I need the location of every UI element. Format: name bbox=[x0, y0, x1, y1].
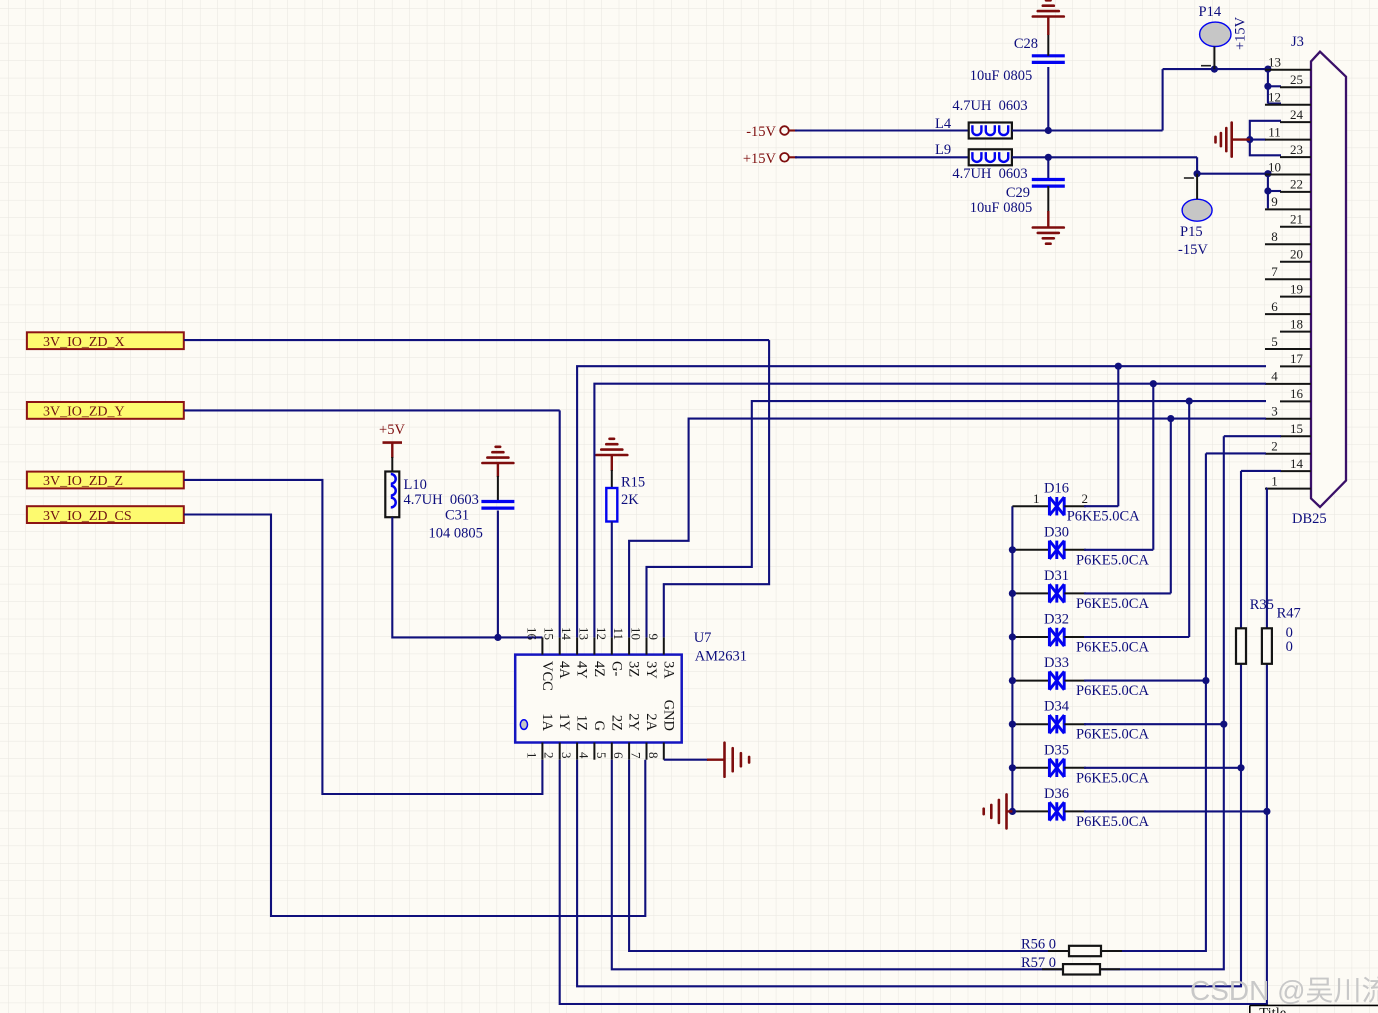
wire -15V to L4 bbox=[795, 129, 969, 131]
svg-text:8: 8 bbox=[1271, 229, 1278, 244]
svg-text:3A: 3A bbox=[660, 661, 676, 679]
U7 pin 6 (2Y) bbox=[611, 713, 642, 759]
capacitor C28 bbox=[1032, 56, 1065, 63]
U7 pin 2 (1Y) bbox=[542, 713, 573, 759]
U7 pin 12 (G-) bbox=[594, 627, 625, 676]
svg-text:R56 0: R56 0 bbox=[1021, 937, 1056, 953]
svg-text:13: 13 bbox=[576, 627, 591, 640]
U7 pin 7 (2A) bbox=[629, 713, 660, 759]
wire C28 to L4 junction bbox=[1047, 67, 1049, 131]
U7 pin 9 (3A) bbox=[646, 634, 677, 680]
U7 pin 10 (3Y) bbox=[629, 627, 660, 679]
J3 pin 24 bbox=[1280, 107, 1311, 122]
svg-text:D35: D35 bbox=[1044, 742, 1069, 758]
junction D16 riser bbox=[1115, 363, 1122, 370]
J3 pin 5 bbox=[1265, 334, 1311, 349]
svg-text:9: 9 bbox=[1271, 194, 1278, 209]
svg-text:3: 3 bbox=[559, 752, 574, 759]
svg-text:4: 4 bbox=[1271, 369, 1278, 384]
svg-text:10uF 0805: 10uF 0805 bbox=[970, 68, 1032, 84]
svg-text:6: 6 bbox=[1271, 299, 1278, 314]
wire riser to D32 bbox=[1188, 401, 1190, 637]
junction bus D33 bbox=[1009, 677, 1016, 684]
svg-text:3V_IO_ZD_CS: 3V_IO_ZD_CS bbox=[43, 509, 132, 524]
svg-text:GND: GND bbox=[660, 700, 676, 731]
title block bbox=[1250, 1005, 1378, 1013]
wire U7 pin11 to J3 pin3 bbox=[629, 419, 1266, 638]
U7 pin 13 (4Z) bbox=[576, 627, 607, 677]
port -15V bbox=[746, 124, 797, 140]
J3 pin 13 bbox=[1265, 55, 1311, 70]
port +15V bbox=[743, 151, 797, 167]
svg-text:CSDN @吴川流: CSDN @吴川流 bbox=[1190, 975, 1378, 1006]
svg-text:14: 14 bbox=[1290, 456, 1304, 471]
wire C29 to ground bbox=[1047, 186, 1049, 212]
junction C31 bbox=[494, 634, 501, 641]
wire L9 to pin10 row bbox=[1197, 157, 1269, 173]
wire R15 to U7 pin12 bbox=[611, 522, 613, 638]
resistor R56 bbox=[1048, 950, 1069, 952]
wire J3 pin1 to R47 bbox=[1266, 488, 1268, 628]
svg-text:6: 6 bbox=[611, 752, 626, 759]
J3 pin 3 bbox=[1265, 404, 1311, 419]
svg-text:11: 11 bbox=[611, 627, 626, 640]
svg-text:P14: P14 bbox=[1199, 4, 1222, 20]
svg-text:P6KE5.0CA: P6KE5.0CA bbox=[1076, 727, 1149, 743]
junction L9/C29 bbox=[1045, 154, 1052, 161]
svg-text:19: 19 bbox=[1290, 281, 1303, 296]
svg-text:+15V: +15V bbox=[1233, 16, 1249, 50]
J3 pin 18 bbox=[1280, 316, 1311, 331]
wire U7 pin10 to J3 pin16 bbox=[647, 401, 1267, 637]
svg-text:3V_IO_ZD_Y: 3V_IO_ZD_Y bbox=[43, 405, 125, 420]
wire U7 pin2 loop to R47/D36/J3 pin1 bbox=[560, 664, 1267, 1004]
svg-text:L9: L9 bbox=[935, 142, 951, 158]
wire net 3V_IO_ZD_Z bbox=[184, 480, 542, 794]
junction D34 loop bbox=[1220, 721, 1227, 728]
svg-text:1: 1 bbox=[1271, 473, 1278, 488]
inductor L10 bbox=[385, 472, 399, 518]
wire J3 pin14 to R35 bbox=[1240, 471, 1242, 628]
svg-text:P6KE5.0CA: P6KE5.0CA bbox=[1076, 640, 1149, 656]
wire to pin12 bbox=[1268, 102, 1281, 104]
junction D35 loop bbox=[1237, 764, 1244, 771]
port 3V_IO_ZD_CS bbox=[27, 506, 184, 524]
junction bus D36 bbox=[1009, 808, 1016, 815]
svg-text:G-: G- bbox=[608, 661, 624, 676]
U7 pin 5 (2Z) bbox=[594, 715, 625, 760]
junction D36 loop bbox=[1263, 808, 1270, 815]
resistor R35 bbox=[1236, 628, 1246, 664]
ground earth above C28 bbox=[1033, 0, 1064, 16]
J3 pin 1 bbox=[1265, 473, 1311, 488]
junction bus D35 bbox=[1009, 764, 1016, 771]
svg-text:P6KE5.0CA: P6KE5.0CA bbox=[1076, 814, 1149, 830]
svg-text:12: 12 bbox=[1268, 90, 1281, 105]
svg-text:R47: R47 bbox=[1277, 606, 1301, 622]
U7 pin 1 (1A) bbox=[524, 713, 555, 759]
svg-text:17: 17 bbox=[1290, 351, 1304, 366]
svg-text:3V_IO_ZD_X: 3V_IO_ZD_X bbox=[43, 335, 125, 350]
connector J3 body bbox=[1311, 52, 1346, 507]
J3 pin 12 bbox=[1265, 90, 1311, 105]
wire to pin22 bbox=[1268, 190, 1281, 192]
junction pin25 bbox=[1264, 83, 1271, 90]
diode D34 P6KE5.0CA bbox=[1012, 699, 1223, 743]
wire +15V to L9 bbox=[795, 156, 969, 158]
wire U7 pin8 to ground bbox=[664, 759, 708, 761]
U7 pin1 indicator dot bbox=[520, 720, 527, 730]
junction bus D34 bbox=[1009, 721, 1016, 728]
svg-text:1A: 1A bbox=[539, 713, 555, 731]
junction pin13 bbox=[1264, 66, 1271, 73]
wire net 3V_IO_ZD_X bbox=[184, 339, 769, 341]
svg-text:3: 3 bbox=[1271, 404, 1278, 419]
diode D30 P6KE5.0CA bbox=[1012, 524, 1153, 568]
J3 pin 7 bbox=[1265, 264, 1311, 279]
svg-text:1: 1 bbox=[1033, 491, 1040, 506]
svg-text:7: 7 bbox=[1271, 264, 1278, 279]
J3 pin 19 bbox=[1280, 281, 1311, 296]
port 3V_IO_ZD_Z bbox=[27, 472, 184, 490]
junction pin22 bbox=[1264, 187, 1271, 194]
svg-text:P6KE5.0CA: P6KE5.0CA bbox=[1076, 770, 1149, 786]
wire to J3 pin2 bbox=[1206, 452, 1266, 454]
U7 pin 11 (3Z) bbox=[611, 627, 642, 677]
wire diode anode bus bbox=[1011, 506, 1013, 811]
junction L4/C28 bbox=[1045, 127, 1052, 134]
J3 pin 23 bbox=[1280, 142, 1311, 157]
resistor R15 bbox=[611, 455, 613, 471]
svg-text:7: 7 bbox=[629, 752, 644, 759]
wire L4 out to riser bbox=[1012, 129, 1163, 131]
svg-text:2Y: 2Y bbox=[626, 713, 642, 731]
resistor R57 bbox=[1042, 968, 1063, 970]
svg-text:0: 0 bbox=[1286, 639, 1293, 655]
J3 pin 20 bbox=[1280, 247, 1311, 262]
capacitor C31 bbox=[497, 463, 499, 477]
wire pin10/pin22/pin9 tie bbox=[1267, 174, 1269, 209]
svg-text:L10: L10 bbox=[404, 477, 427, 493]
svg-text:L4: L4 bbox=[935, 116, 952, 132]
svg-text:AM2631: AM2631 bbox=[695, 649, 747, 665]
junction bus D31 bbox=[1009, 590, 1016, 597]
wire L10 to U7 pin16 bbox=[392, 517, 542, 637]
svg-text:2K: 2K bbox=[621, 492, 639, 508]
svg-text:D32: D32 bbox=[1044, 612, 1069, 628]
svg-text:20: 20 bbox=[1290, 247, 1303, 262]
svg-text:15: 15 bbox=[1290, 421, 1303, 436]
svg-text:4: 4 bbox=[576, 752, 591, 759]
resistor R47 bbox=[1262, 628, 1272, 664]
svg-text:12: 12 bbox=[594, 627, 609, 640]
svg-text:8: 8 bbox=[646, 752, 661, 759]
svg-text:16: 16 bbox=[524, 627, 539, 641]
svg-text:10uF 0805: 10uF 0805 bbox=[970, 200, 1032, 216]
svg-text:5: 5 bbox=[594, 752, 609, 759]
J3 pin 6 bbox=[1265, 299, 1311, 314]
U7 pin 16 (VCC) bbox=[524, 627, 555, 691]
wire U7 pin14 to J3 pin17 bbox=[577, 366, 1266, 637]
wire U7 pin6 loop via R56 to J3 pin2 bbox=[629, 453, 1206, 951]
wire L9 out bbox=[1012, 156, 1197, 158]
svg-text:P15: P15 bbox=[1180, 224, 1203, 240]
svg-text:C31: C31 bbox=[445, 508, 469, 524]
svg-text:D30: D30 bbox=[1044, 524, 1069, 540]
svg-text:4.7UH 0603: 4.7UH 0603 bbox=[404, 492, 479, 508]
svg-text:2: 2 bbox=[1082, 491, 1089, 506]
U7 pin 3 (1Z) bbox=[559, 715, 590, 760]
wire U7 pin3 loop to R35/D35/J3 pin14 bbox=[577, 664, 1241, 986]
ground earth below C29 bbox=[1033, 228, 1064, 244]
svg-text:15: 15 bbox=[542, 627, 557, 640]
inductor L4 bbox=[969, 123, 1012, 139]
U7 pin 8 (GND) bbox=[646, 700, 677, 760]
J3 pin 4 bbox=[1265, 369, 1311, 384]
wire U7 pin9 to net X bbox=[664, 340, 769, 637]
port 3V_IO_ZD_X bbox=[27, 332, 184, 350]
power +5V bbox=[379, 422, 405, 472]
wire U7 pin13 to J3 pin4 bbox=[594, 384, 1266, 638]
svg-text:R57 0: R57 0 bbox=[1021, 955, 1056, 971]
svg-text:9: 9 bbox=[646, 634, 661, 641]
J3 pin 8 bbox=[1265, 229, 1311, 244]
svg-text:DB25: DB25 bbox=[1292, 511, 1327, 527]
junction D33 loop bbox=[1202, 677, 1209, 684]
svg-text:14: 14 bbox=[559, 627, 574, 641]
ground earth above R15 bbox=[596, 439, 627, 455]
svg-text:J3: J3 bbox=[1291, 34, 1304, 50]
J3 pin 11 bbox=[1265, 124, 1311, 139]
ground signal at D36 bbox=[1006, 810, 1012, 812]
svg-text:2Z: 2Z bbox=[608, 715, 624, 731]
connector P14 bbox=[1200, 22, 1231, 69]
diode D31 P6KE5.0CA bbox=[1012, 568, 1170, 612]
svg-text:3Y: 3Y bbox=[643, 661, 659, 679]
junction D31 riser bbox=[1167, 415, 1174, 422]
svg-text:P6KE5.0CA: P6KE5.0CA bbox=[1067, 509, 1140, 525]
svg-text:G: G bbox=[591, 721, 607, 732]
svg-text:4Z: 4Z bbox=[591, 661, 607, 677]
J3 pin 9 bbox=[1265, 194, 1311, 209]
port 3V_IO_ZD_Y bbox=[27, 402, 184, 420]
svg-text:22: 22 bbox=[1290, 177, 1303, 192]
wire L9 junction to C29 bbox=[1047, 157, 1049, 180]
U7 pin 4 (G) bbox=[576, 721, 607, 760]
svg-text:1Y: 1Y bbox=[556, 713, 572, 731]
svg-text:Title: Title bbox=[1259, 1006, 1286, 1013]
svg-text:D33: D33 bbox=[1044, 655, 1069, 671]
svg-text:C28: C28 bbox=[1014, 36, 1038, 52]
diode D16 P6KE5.0CA bbox=[1012, 481, 1140, 525]
svg-text:D31: D31 bbox=[1044, 568, 1069, 584]
wire U7 pin5 loop via R57 to J3 pin15 bbox=[612, 436, 1224, 969]
J3 pin 10 bbox=[1265, 159, 1311, 174]
junction bus D32 bbox=[1009, 633, 1016, 640]
J3 pin 15 bbox=[1280, 421, 1311, 436]
wire +15V rail to J3 pin13 bbox=[1163, 68, 1269, 70]
ground signal at pin11 bbox=[1216, 123, 1232, 157]
connector P15 bbox=[1182, 174, 1212, 222]
diode D36 P6KE5.0CA bbox=[1012, 786, 1267, 830]
svg-text:R15: R15 bbox=[621, 475, 645, 491]
svg-text:13: 13 bbox=[1268, 55, 1281, 70]
wire to J3 pin1 bbox=[1265, 487, 1268, 489]
junction P14 bbox=[1211, 66, 1218, 73]
svg-text:2: 2 bbox=[542, 752, 557, 759]
svg-text:-15V: -15V bbox=[746, 124, 776, 140]
J3 pin 2 bbox=[1265, 439, 1311, 454]
svg-text:4A: 4A bbox=[556, 661, 572, 679]
wire U7 pin15 to net Y bbox=[559, 410, 561, 637]
svg-text:1Z: 1Z bbox=[574, 715, 590, 731]
svg-text:U7: U7 bbox=[694, 630, 712, 646]
wire net 3V_IO_ZD_Y bbox=[184, 409, 560, 411]
svg-text:P6KE5.0CA: P6KE5.0CA bbox=[1076, 683, 1149, 699]
capacitor C29 bbox=[1032, 180, 1065, 187]
svg-text:4.7UH 0603: 4.7UH 0603 bbox=[952, 166, 1027, 182]
junction P15 bbox=[1194, 170, 1201, 177]
svg-text:P6KE5.0CA: P6KE5.0CA bbox=[1076, 552, 1149, 568]
svg-text:VCC: VCC bbox=[539, 661, 555, 691]
wire C31 to pin16 rail bbox=[497, 511, 499, 638]
wire riser to D30 bbox=[1152, 384, 1154, 550]
svg-text:3Z: 3Z bbox=[626, 661, 642, 677]
diode D33 P6KE5.0CA bbox=[1012, 655, 1206, 699]
svg-text:P6KE5.0CA: P6KE5.0CA bbox=[1076, 596, 1149, 612]
svg-text:D34: D34 bbox=[1044, 699, 1070, 715]
wire pin11 to gnd bbox=[1250, 139, 1266, 141]
wire C28 top to ground bbox=[1047, 34, 1049, 56]
wire to J3 pin14 bbox=[1241, 470, 1281, 472]
junction D30 riser bbox=[1150, 380, 1157, 387]
junction pin11 gnd bbox=[1246, 136, 1253, 143]
svg-text:5: 5 bbox=[1271, 334, 1278, 349]
svg-text:+15V: +15V bbox=[743, 151, 777, 167]
wire riser to D31 bbox=[1170, 419, 1172, 594]
svg-text:4Y: 4Y bbox=[574, 661, 590, 679]
diode D35 P6KE5.0CA bbox=[1012, 742, 1241, 786]
J3 pin 21 bbox=[1280, 212, 1311, 227]
svg-text:D16: D16 bbox=[1044, 481, 1069, 497]
svg-text:D36: D36 bbox=[1044, 786, 1069, 802]
svg-text:2A: 2A bbox=[643, 713, 659, 731]
svg-text:10: 10 bbox=[1268, 159, 1281, 174]
svg-text:23: 23 bbox=[1290, 142, 1303, 157]
wire riser to D16 bbox=[1117, 366, 1119, 506]
junction D32 riser bbox=[1186, 398, 1193, 405]
ground earth above C31 bbox=[482, 447, 513, 463]
J3 pin 17 bbox=[1280, 351, 1311, 366]
svg-text:+5V: +5V bbox=[379, 422, 405, 438]
svg-text:104 0805: 104 0805 bbox=[429, 526, 483, 542]
svg-text:25: 25 bbox=[1290, 72, 1303, 87]
J3 pin 14 bbox=[1280, 456, 1311, 471]
svg-text:4.7UH 0603: 4.7UH 0603 bbox=[952, 98, 1027, 114]
U7 pin 15 (4A) bbox=[542, 627, 573, 679]
wire net 3V_IO_ZD_CS bbox=[184, 515, 645, 917]
svg-text:16: 16 bbox=[1290, 386, 1304, 401]
wire gnd tie pins 24/11/23 bbox=[1250, 121, 1281, 156]
svg-text:1: 1 bbox=[524, 752, 539, 759]
wire riser x1162 bbox=[1162, 69, 1164, 130]
svg-text:2: 2 bbox=[1271, 439, 1278, 454]
svg-text:R35: R35 bbox=[1250, 597, 1274, 613]
svg-text:10: 10 bbox=[629, 627, 644, 640]
wire pin13/pin25/pin12 tie bbox=[1267, 69, 1269, 103]
svg-text:18: 18 bbox=[1290, 316, 1303, 331]
svg-text:24: 24 bbox=[1290, 107, 1304, 122]
svg-text:21: 21 bbox=[1290, 212, 1303, 227]
J3 pin 22 bbox=[1280, 177, 1311, 192]
junction pin10 bbox=[1264, 170, 1271, 177]
op-amp U7 AM2631 body bbox=[515, 655, 682, 743]
svg-text:3V_IO_ZD_Z: 3V_IO_ZD_Z bbox=[43, 474, 123, 489]
junction bus D30 bbox=[1009, 546, 1016, 553]
ground signal at U7 pin8 bbox=[725, 743, 750, 777]
svg-text:11: 11 bbox=[1268, 124, 1281, 139]
wire to J3 pin15 bbox=[1224, 435, 1281, 437]
diode D32 P6KE5.0CA bbox=[1012, 612, 1189, 656]
J3 pin 25 bbox=[1280, 72, 1311, 87]
J3 pin 16 bbox=[1280, 386, 1311, 401]
wire to pin25 bbox=[1268, 85, 1281, 87]
inductor L9 bbox=[969, 149, 1012, 165]
svg-text:C29: C29 bbox=[1006, 185, 1030, 201]
svg-text:-15V: -15V bbox=[1178, 242, 1208, 258]
U7 pin 14 (4Y) bbox=[559, 627, 590, 679]
